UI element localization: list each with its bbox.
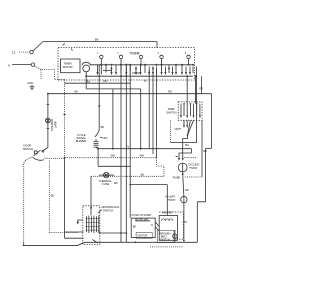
wire buzzer to YL line: [96, 147, 98, 149]
svg-text:BU: BU: [141, 172, 145, 176]
tick on timer box top: [71, 49, 73, 51]
wire buzzer drop x99.2: [98, 65, 100, 130]
tick label on x64.6: [63, 114, 65, 116]
timer motor box: [61, 59, 81, 73]
junction below tstat: [182, 173, 184, 175]
cycling tstat circle: [178, 163, 187, 172]
wire V x64.6 lower: [64, 158, 66, 232]
wire dotted H y176.3: [91, 175, 164, 177]
wire door sw dotted right: [45, 157, 65, 159]
inner text box: [158, 231, 175, 243]
tick on buzzer wire: [98, 105, 100, 107]
timer contact strokes: [98, 65, 194, 75]
svg-text:BU: BU: [185, 143, 189, 147]
svg-text:BK: BK: [114, 181, 118, 185]
wire V x130.2: [129, 65, 131, 218]
junction dot below motor: [85, 75, 87, 77]
svg-text:OR: OR: [175, 127, 179, 131]
dotted stub near temp: [184, 157, 196, 159]
svg-text:PU/BK: PU/BK: [173, 176, 181, 180]
wire V x126.3 long: [125, 65, 127, 243]
wire motor drop: [85, 72, 87, 76]
wire L1 drop into timer: [156, 42, 158, 48]
motor internal leads: [91, 208, 126, 243]
wire door sw left return: [24, 158, 32, 165]
wire dotted staircase right: [156, 158, 164, 177]
terminal N: [31, 63, 34, 66]
wire V x211.5 right edge: [211, 94, 213, 149]
svg-text:1: 1: [97, 53, 99, 55]
timer motor symbol: [83, 65, 90, 72]
temp switch arrows below box: [184, 120, 187, 127]
svg-text:N: N: [8, 63, 10, 67]
wire V x201.5 timer to rail: [201, 76, 203, 94]
svg-text:BU: BU: [75, 90, 79, 94]
wire H y88.9: [86, 76, 141, 89]
wire V x112.9: [112, 89, 114, 149]
thermal fuse symbol: [104, 172, 109, 177]
svg-text:WH: WH: [140, 154, 144, 158]
wire V hi-limit down: [183, 203, 185, 241]
svg-text:T'STAT: T'STAT: [167, 198, 176, 202]
svg-text:HEATER: HEATER: [162, 211, 172, 215]
node N lead: [12, 64, 31, 66]
timer contact arrowheads: [96, 72, 191, 75]
rail junction dots: [135, 241, 137, 243]
wire V x49.3 dotted: [48, 161, 50, 233]
wire dotted H y232.5: [49, 232, 77, 234]
wire V x196.6 long: [196, 67, 198, 143]
svg-text:FUSE: FUSE: [102, 182, 109, 186]
junction dot motor feed: [90, 207, 92, 209]
wire L1 riser: [33, 42, 43, 52]
svg-text:RD: RD: [168, 89, 172, 93]
svg-text:L1: L1: [12, 50, 16, 54]
wire tstat step: [183, 135, 188, 151]
wire V x47.9 lamp branch: [47, 94, 49, 148]
wire vertical x64.6 dotted upper: [64, 80, 66, 158]
heater coil: [162, 219, 173, 221]
wire L1 dotted lead: [19, 51, 29, 53]
wire V x23.7 dotted: [23, 164, 25, 242]
svg-text:5: 5: [185, 53, 187, 55]
wire V x149.2: [148, 70, 150, 149]
temp switch contacts: [181, 104, 200, 118]
temp switch V converge: [188, 120, 194, 135]
svg-text:RD: RD: [104, 79, 108, 83]
wire lamp to door switch: [42, 148, 48, 152]
wire N dotted staircase: [35, 66, 65, 80]
bottom rail right: [135, 241, 197, 243]
heater box: [159, 216, 177, 241]
wire YL line y148.7: [98, 148, 191, 150]
belt switch circle: [173, 234, 177, 238]
up arrowheads: [110, 66, 196, 149]
heater bottom dashed: [150, 246, 183, 248]
wire neutral rail y93.7: [48, 93, 212, 95]
wire V x191.4 to tstat feed: [179, 149, 191, 153]
thermal fuse segment: [99, 174, 114, 176]
svg-text:YL: YL: [126, 145, 130, 149]
svg-text:GND: GND: [27, 81, 33, 85]
inner box: [136, 232, 152, 238]
svg-text:WH: WH: [111, 154, 115, 158]
wire V x140.7: [140, 89, 142, 149]
drive motor box dashed: [83, 206, 100, 245]
cycling tstat feed arrows: [179, 151, 183, 160]
ground symbol: [30, 85, 35, 90]
wire corner to rail: [23, 242, 25, 245]
svg-text:4: 4: [158, 53, 160, 55]
door switch: [34, 151, 37, 154]
tick on L1 bus: [63, 44, 66, 46]
svg-text:YL: YL: [144, 79, 148, 83]
wire H y184.6 heater feed: [130, 184, 167, 186]
wire L1 top bus: [43, 41, 157, 43]
wire heater feed elbow: [197, 202, 205, 243]
svg-text:RD: RD: [185, 188, 189, 192]
svg-text:BK: BK: [95, 37, 99, 41]
svg-text:2: 2: [117, 53, 119, 55]
wire V x156.4: [155, 70, 157, 158]
hi-limit tstat circle: [181, 196, 187, 202]
lamp circle: [46, 118, 51, 123]
temp switch feed wires: [187, 76, 195, 103]
motor windings: [86, 216, 98, 234]
wire H y83.2: [65, 82, 131, 84]
svg-text:T'STAT: T'STAT: [189, 166, 198, 170]
svg-text:MOTOR: MOTOR: [138, 234, 148, 238]
wire H y238.4 into motor: [65, 232, 84, 238]
push to start box: [131, 218, 155, 237]
svg-text:SWITCH: SWITCH: [160, 237, 170, 241]
centrifugal switch arm: [78, 220, 83, 222]
svg-text:BU: BU: [101, 125, 105, 129]
svg-text:MOTOR: MOTOR: [63, 65, 73, 69]
svg-text:OFF: OFF: [102, 136, 108, 140]
svg-text:BUZZER: BUZZER: [76, 139, 86, 143]
junction dots on bus: [100, 64, 194, 66]
dotted right of tstat: [185, 176, 202, 178]
wire V x170.5 dotted: [170, 120, 172, 142]
wire V x167.3: [166, 185, 168, 216]
push box diagonals to heater: [155, 222, 159, 231]
temp switch box dashed: [178, 102, 202, 120]
wire H y230.7 into motor: [65, 231, 84, 233]
junction lamp top: [47, 93, 49, 95]
wire V x205.6 right column: [205, 148, 207, 201]
wire H y166.3: [98, 165, 130, 167]
terminal drops: [101, 59, 188, 65]
svg-text:O: O: [151, 223, 154, 227]
svg-text:SWITCH: SWITCH: [103, 209, 113, 213]
wire V x121 long: [120, 65, 122, 243]
tick on hi-limit wire: [183, 221, 186, 223]
wire H y142.6: [171, 142, 197, 144]
heater dashed outline: [159, 212, 183, 239]
timer terminal circles: [100, 55, 103, 58]
svg-text:OR: OR: [199, 87, 203, 91]
svg-text:RD: RD: [203, 149, 207, 153]
wire H y76.2: [86, 75, 193, 77]
tick left of arrows: [176, 156, 178, 158]
terminal L1: [30, 50, 33, 53]
wire dotted H y157.7: [65, 157, 157, 159]
svg-text:BK: BK: [133, 224, 137, 228]
wire jog y148.4: [206, 147, 212, 149]
wire V tstat to hi-limit: [183, 174, 184, 196]
svg-text:LAMP: LAMP: [54, 121, 58, 128]
svg-text:SWITCH: SWITCH: [166, 110, 176, 114]
timer bus: [90, 64, 193, 66]
buzzer switch blade: [95, 130, 99, 137]
svg-text:SWITCH: SWITCH: [23, 147, 33, 151]
bottom rail left: [23, 242, 136, 245]
wire V x202 temp box down: [201, 120, 203, 177]
wire V x91.9 motor feed: [90, 176, 92, 208]
wire V x98.1 drop: [97, 149, 99, 167]
wire V x153: [152, 70, 154, 154]
ticks on lamp wire: [47, 104, 49, 128]
buzzer coil: [94, 139, 99, 147]
timer contact jumpers: [103, 71, 141, 73]
svg-text:BU: BU: [51, 194, 55, 198]
terminal digits: [97, 53, 187, 55]
timer box dashed outline: [58, 48, 195, 80]
